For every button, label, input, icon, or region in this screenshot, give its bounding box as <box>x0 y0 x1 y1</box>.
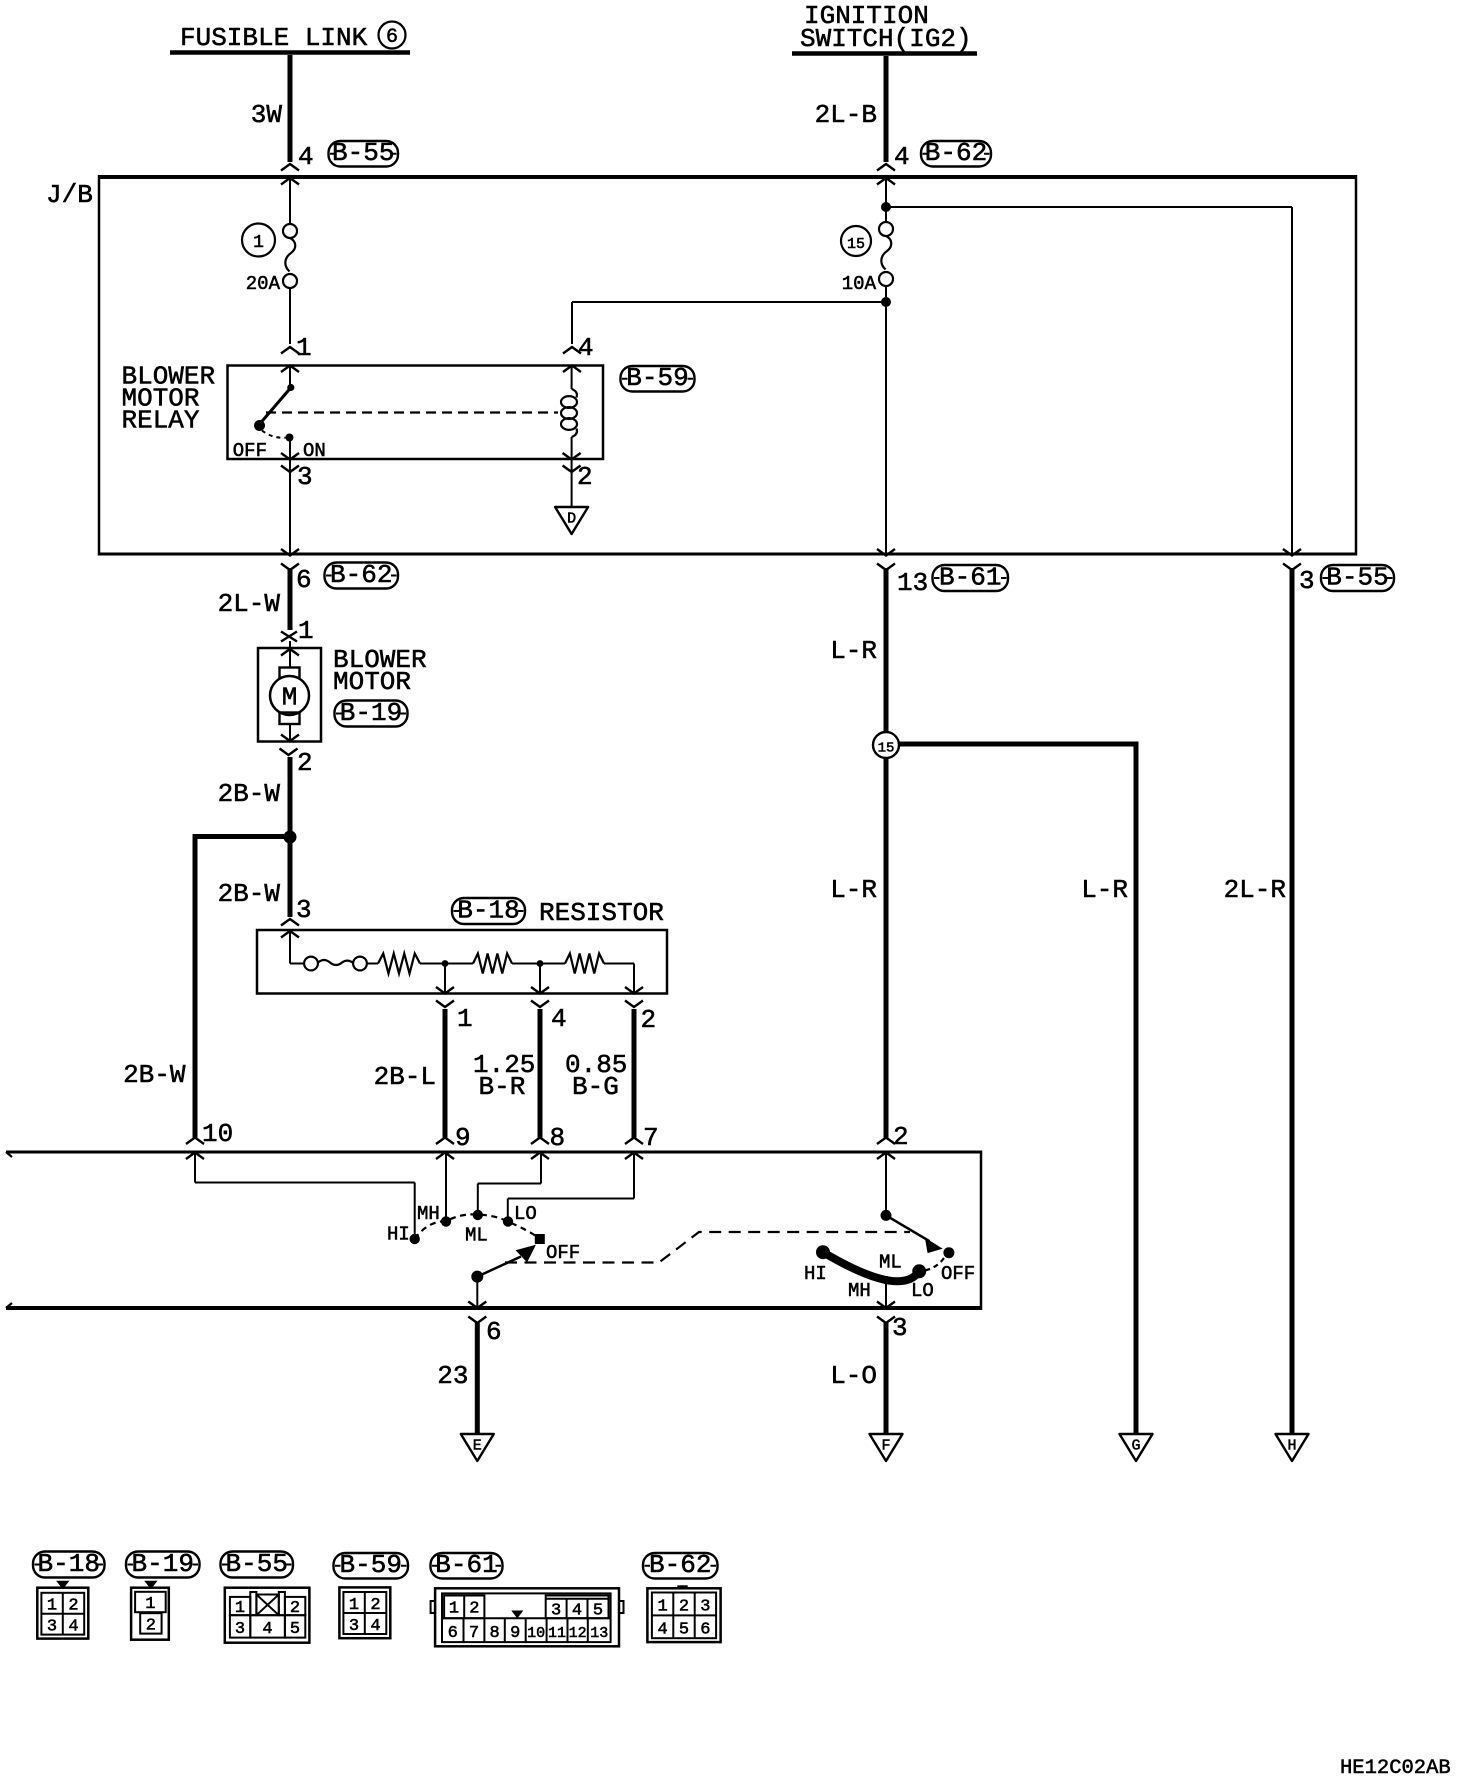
svg-text:1: 1 <box>349 1596 359 1615</box>
svg-text:B-61: B-61 <box>435 1550 497 1580</box>
svg-text:HI: HI <box>387 1224 410 1246</box>
svg-text:6: 6 <box>296 565 312 595</box>
svg-text:9: 9 <box>455 1123 471 1153</box>
svg-text:6: 6 <box>448 1624 458 1643</box>
svg-text:HI: HI <box>804 1263 827 1285</box>
svg-text:6: 6 <box>386 26 398 49</box>
svg-text:2: 2 <box>370 1596 380 1615</box>
svg-text:1: 1 <box>296 333 312 363</box>
svg-text:4: 4 <box>578 333 594 363</box>
svg-text:3: 3 <box>1299 566 1315 596</box>
svg-text:1: 1 <box>657 1598 667 1617</box>
svg-text:1: 1 <box>235 1599 245 1618</box>
svg-text:5: 5 <box>290 1620 300 1639</box>
svg-text:1: 1 <box>47 1597 57 1616</box>
svg-text:15: 15 <box>878 741 895 757</box>
svg-text:B-55: B-55 <box>226 1549 288 1579</box>
svg-text:1: 1 <box>145 1595 155 1614</box>
svg-text:1: 1 <box>457 1004 473 1034</box>
svg-text:2: 2 <box>68 1597 78 1616</box>
svg-text:B-18: B-18 <box>457 896 519 926</box>
svg-text:B-G: B-G <box>572 1072 619 1102</box>
svg-text:3: 3 <box>47 1618 57 1637</box>
svg-text:5: 5 <box>593 1602 603 1621</box>
svg-text:4: 4 <box>262 1620 272 1639</box>
svg-text:H: H <box>1287 1438 1296 1455</box>
svg-text:B-62: B-62 <box>330 560 392 590</box>
svg-text:4: 4 <box>370 1617 380 1636</box>
svg-text:B-62: B-62 <box>649 1550 711 1580</box>
svg-text:B-R: B-R <box>479 1072 526 1102</box>
svg-text:6: 6 <box>486 1317 502 1347</box>
svg-text:8: 8 <box>489 1624 499 1643</box>
svg-text:LO: LO <box>514 1203 537 1225</box>
svg-text:3: 3 <box>235 1620 245 1639</box>
svg-text:6: 6 <box>700 1621 710 1640</box>
svg-text:MH: MH <box>417 1203 440 1225</box>
svg-text:3: 3 <box>551 1602 561 1621</box>
svg-text:HE12C02AB: HE12C02AB <box>1340 1757 1451 1778</box>
svg-text:2: 2 <box>146 1617 156 1636</box>
svg-text:3: 3 <box>296 895 312 925</box>
svg-text:2B-W: 2B-W <box>123 1060 186 1090</box>
svg-text:B-59: B-59 <box>340 1550 402 1580</box>
svg-text:2: 2 <box>469 1600 479 1619</box>
svg-text:4: 4 <box>657 1621 667 1640</box>
svg-text:B-18: B-18 <box>38 1549 100 1579</box>
svg-text:4: 4 <box>572 1602 582 1621</box>
svg-text:2B-W: 2B-W <box>218 779 281 809</box>
svg-text:OFF: OFF <box>233 440 267 462</box>
svg-text:3: 3 <box>700 1598 710 1617</box>
svg-text:LO: LO <box>911 1280 934 1302</box>
svg-text:D: D <box>567 511 576 528</box>
svg-text:2L-B: 2L-B <box>815 100 877 130</box>
svg-text:15: 15 <box>847 236 865 253</box>
svg-text:OFF: OFF <box>941 1263 975 1285</box>
svg-text:RESISTOR: RESISTOR <box>539 898 664 928</box>
svg-text:20A: 20A <box>246 273 281 295</box>
svg-text:E: E <box>473 1438 482 1455</box>
svg-text:RELAY: RELAY <box>122 406 200 436</box>
svg-text:11: 11 <box>548 1625 566 1642</box>
svg-text:ON: ON <box>303 440 326 462</box>
svg-text:G: G <box>1131 1438 1140 1455</box>
svg-text:B-62: B-62 <box>925 138 987 168</box>
svg-text:3W: 3W <box>251 100 283 130</box>
svg-text:4: 4 <box>551 1004 567 1034</box>
svg-text:M: M <box>282 683 298 713</box>
svg-text:B-55: B-55 <box>332 138 394 168</box>
svg-text:L-R: L-R <box>1081 875 1128 905</box>
svg-text:L-R: L-R <box>830 636 877 666</box>
svg-text:B-59: B-59 <box>626 363 688 393</box>
svg-text:3: 3 <box>892 1313 908 1343</box>
svg-text:MOTOR: MOTOR <box>333 667 411 697</box>
svg-text:ML: ML <box>879 1252 902 1274</box>
svg-text:B-61: B-61 <box>939 563 1001 593</box>
svg-text:OFF: OFF <box>546 1242 580 1264</box>
svg-text:2: 2 <box>893 1122 909 1152</box>
svg-text:10A: 10A <box>842 273 877 295</box>
svg-text:FUSIBLE LINK: FUSIBLE LINK <box>180 23 368 53</box>
svg-text:2L-R: 2L-R <box>1224 875 1286 905</box>
svg-text:2L-W: 2L-W <box>218 589 281 619</box>
svg-text:1: 1 <box>449 1600 459 1619</box>
svg-text:B-55: B-55 <box>1326 563 1388 593</box>
svg-text:7: 7 <box>643 1123 659 1153</box>
svg-text:9: 9 <box>510 1624 520 1643</box>
svg-text:10: 10 <box>527 1625 545 1642</box>
svg-text:1: 1 <box>298 616 314 646</box>
svg-text:L-R: L-R <box>830 875 877 905</box>
svg-text:B-19: B-19 <box>340 698 402 728</box>
svg-text:ML: ML <box>465 1225 488 1247</box>
svg-text:23: 23 <box>437 1361 468 1391</box>
svg-text:B-19: B-19 <box>132 1549 194 1579</box>
svg-text:2: 2 <box>679 1598 689 1617</box>
svg-text:13: 13 <box>590 1625 608 1642</box>
svg-text:8: 8 <box>550 1123 566 1153</box>
svg-text:2: 2 <box>641 1005 657 1035</box>
svg-text:4: 4 <box>68 1618 78 1637</box>
svg-text:4: 4 <box>894 142 910 172</box>
svg-text:13: 13 <box>897 568 928 598</box>
svg-text:4: 4 <box>298 142 314 172</box>
svg-text:1: 1 <box>253 233 264 253</box>
svg-text:MH: MH <box>848 1280 871 1302</box>
svg-text:7: 7 <box>469 1624 479 1643</box>
svg-text:L-O: L-O <box>830 1361 877 1391</box>
svg-text:12: 12 <box>569 1625 587 1642</box>
svg-text:F: F <box>881 1438 890 1455</box>
svg-text:2: 2 <box>290 1599 300 1618</box>
svg-text:3: 3 <box>349 1617 359 1636</box>
svg-text:J/B: J/B <box>46 180 93 210</box>
svg-text:3: 3 <box>297 462 313 492</box>
svg-text:2B-L: 2B-L <box>374 1062 436 1092</box>
svg-text:2: 2 <box>297 748 313 778</box>
svg-text:2B-W: 2B-W <box>218 879 281 909</box>
svg-text:SWITCH(IG2): SWITCH(IG2) <box>800 24 972 54</box>
svg-text:2: 2 <box>577 462 593 492</box>
svg-text:10: 10 <box>202 1119 233 1149</box>
svg-text:5: 5 <box>679 1621 689 1640</box>
